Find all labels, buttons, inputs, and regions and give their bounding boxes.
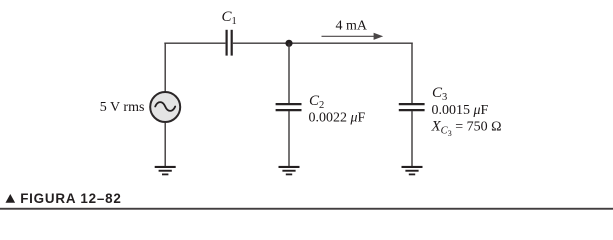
figure caption marker triangle xyxy=(6,194,16,203)
wire source bottom stem xyxy=(164,123,166,167)
svg-text:4 mA: 4 mA xyxy=(336,19,368,34)
svg-text:FIGURA 12–82: FIGURA 12–82 xyxy=(20,191,121,206)
wire C2 bottom stem xyxy=(288,111,290,167)
label C3 value 0.0015 uF and XC3 = 750 ohms xyxy=(431,85,502,138)
current arrow 4 mA xyxy=(322,33,384,40)
wire C3 top stem xyxy=(411,43,413,104)
label C2 value 0.0022 uF xyxy=(309,93,366,126)
node A junction dot xyxy=(285,40,292,47)
wire C2 top stem xyxy=(288,43,290,103)
wire C3 bottom stem xyxy=(411,111,413,167)
capacitor C2 xyxy=(276,104,302,110)
svg-text:5 V rms: 5 V rms xyxy=(100,100,145,115)
ground under C3 xyxy=(402,166,423,175)
ac source VS 5 V rms xyxy=(150,92,180,122)
capacitor C1 xyxy=(227,30,232,56)
capacitor C3 xyxy=(399,104,425,110)
svg-text:C1: C1 xyxy=(222,9,237,27)
caption rule xyxy=(0,208,613,210)
svg-text:C2: C2 xyxy=(309,93,324,111)
wire source top stem xyxy=(164,43,166,92)
svg-text:0.0015 μF: 0.0015 μF xyxy=(432,103,489,118)
ground under source xyxy=(155,166,176,175)
svg-text:XC3 = 750 Ω: XC3 = 750 Ω xyxy=(431,118,502,138)
svg-text:0.0022 μF: 0.0022 μF xyxy=(309,111,366,126)
wire top horizontal, source node to C1 left plate xyxy=(164,42,225,44)
ground under C2 xyxy=(279,166,300,175)
wire top horizontal, C1 right plate through node A to top-right corner xyxy=(233,42,413,44)
svg-text:C3: C3 xyxy=(432,85,447,103)
